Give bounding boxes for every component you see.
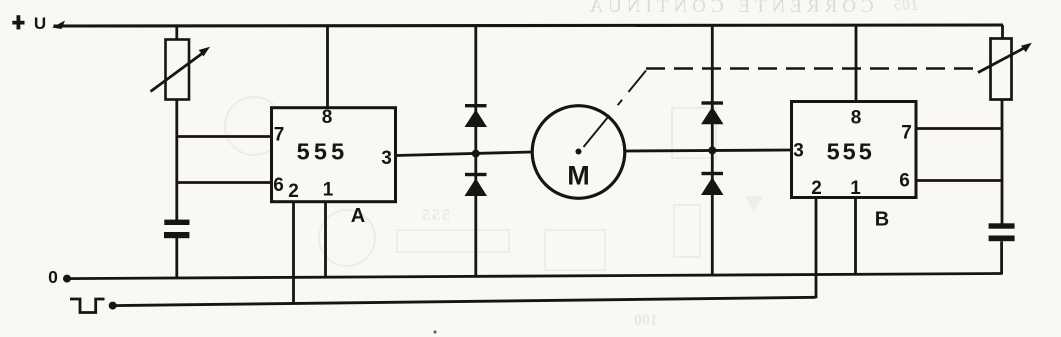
svg-text:B: B [875, 208, 889, 230]
svg-text:3: 3 [793, 140, 804, 161]
svg-text:8: 8 [851, 107, 862, 128]
svg-text:CORRENTE CONTINUA: CORRENTE CONTINUA [584, 0, 873, 17]
svg-text:6: 6 [273, 175, 284, 196]
svg-text:555: 555 [827, 139, 875, 165]
svg-text:3: 3 [381, 148, 392, 169]
svg-text:100: 100 [634, 312, 658, 329]
svg-text:105: 105 [893, 0, 919, 14]
svg-text:0: 0 [48, 267, 58, 287]
svg-text:555: 555 [297, 138, 349, 164]
svg-text:7: 7 [274, 124, 285, 145]
svg-text:6: 6 [899, 170, 910, 191]
svg-text:A: A [351, 205, 365, 227]
svg-text:1: 1 [850, 178, 861, 199]
svg-text:M: M [567, 161, 590, 191]
svg-text:8: 8 [322, 107, 333, 128]
svg-text:7: 7 [901, 122, 912, 143]
svg-text:U: U [34, 14, 46, 33]
svg-text:1: 1 [323, 180, 334, 201]
svg-text:2: 2 [288, 181, 299, 202]
svg-text:2: 2 [811, 178, 822, 199]
svg-text:555: 555 [420, 207, 450, 224]
